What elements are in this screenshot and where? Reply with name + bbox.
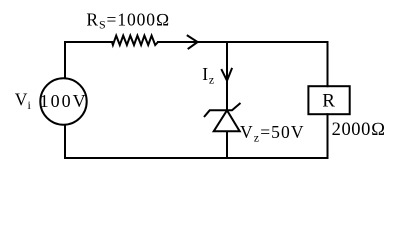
svg-text:R: R	[322, 91, 335, 112]
wire zener branch bottom	[226, 131, 228, 158]
wire top-left horizontal	[65, 41, 112, 43]
wire zener branch top	[226, 42, 228, 110]
zener diode DZ triangle	[214, 110, 240, 131]
svg-text:RS=1000Ω: RS=1000Ω	[86, 10, 170, 32]
wire left vertical top	[64, 42, 66, 78]
svg-text:100V: 100V	[40, 91, 88, 111]
wire top-right horizontal	[158, 41, 328, 43]
svg-text:Vz=50V: Vz=50V	[240, 122, 305, 145]
arrow current direction on top wire	[187, 35, 198, 49]
svg-text:Vi: Vi	[15, 89, 32, 112]
svg-text:Iz: Iz	[202, 64, 214, 87]
resistor RS zigzag	[112, 36, 158, 45]
svg-text:2000Ω: 2000Ω	[332, 120, 386, 140]
wire left vertical bottom	[64, 125, 66, 158]
source VS circle	[40, 78, 86, 124]
wire right vertical top	[327, 42, 329, 86]
wire bottom horizontal	[65, 157, 328, 159]
arrow Iz on zener branch	[221, 68, 232, 81]
wire right vertical bottom	[327, 114, 329, 158]
zener diode DZ cathode bar with tails	[204, 103, 241, 117]
resistor R box	[308, 86, 349, 114]
